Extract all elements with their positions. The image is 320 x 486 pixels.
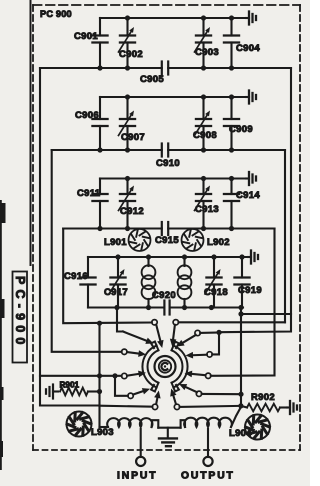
svg-text:C908: C908 xyxy=(193,130,217,141)
svg-text:C911: C911 xyxy=(77,188,101,199)
svg-text:C916: C916 xyxy=(64,271,88,282)
svg-text:C918: C918 xyxy=(204,287,228,298)
svg-text:INPUT: INPUT xyxy=(117,471,157,482)
svg-text:C906: C906 xyxy=(75,110,99,121)
svg-text:C919: C919 xyxy=(238,285,262,296)
svg-text:C904: C904 xyxy=(236,43,260,54)
svg-text:R902: R902 xyxy=(251,392,275,403)
svg-text:C917: C917 xyxy=(104,287,128,298)
svg-text:C902: C902 xyxy=(119,49,143,60)
svg-text:L902: L902 xyxy=(207,237,230,248)
svg-text:C920: C920 xyxy=(152,290,176,301)
svg-text:PC 900: PC 900 xyxy=(40,9,72,19)
svg-text:C901: C901 xyxy=(74,31,98,42)
svg-text:C903: C903 xyxy=(195,47,219,58)
svg-text:OUTPUT: OUTPUT xyxy=(181,471,235,482)
svg-text:C907: C907 xyxy=(121,132,145,143)
svg-text:C914: C914 xyxy=(236,190,260,201)
svg-text:L904: L904 xyxy=(229,428,252,439)
svg-text:L901: L901 xyxy=(104,237,127,248)
svg-text:C915: C915 xyxy=(155,235,179,246)
svg-text:C913: C913 xyxy=(195,204,219,215)
svg-text:C905: C905 xyxy=(140,74,164,85)
svg-text:C912: C912 xyxy=(120,206,144,217)
svg-text:C910: C910 xyxy=(156,158,180,169)
svg-text:PC-900: PC-900 xyxy=(13,276,27,350)
svg-text:L903: L903 xyxy=(91,427,114,438)
svg-text:C909: C909 xyxy=(229,124,253,135)
